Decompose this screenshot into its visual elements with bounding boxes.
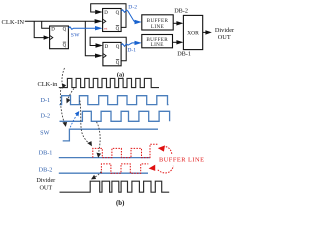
svg-text:CLK-in: CLK-in — [37, 81, 58, 88]
svg-text:SW: SW — [71, 32, 81, 38]
svg-text:rst: rst — [104, 27, 108, 31]
dashed arrow CLK-in to D-1 edge — [67, 89, 74, 102]
svg-text:Q: Q — [116, 27, 120, 32]
gate XOR — [183, 15, 202, 49]
svg-text:D: D — [104, 11, 108, 16]
wire D-2 net (blue) from U2 Q to buffer B1 — [121, 10, 135, 22]
svg-text:Divider: Divider — [215, 27, 235, 34]
arrowhead into U2 D — [95, 10, 102, 14]
arrowhead into U1 clock — [44, 35, 50, 39]
arrowhead into U2 clock — [95, 19, 103, 23]
svg-text:Divider: Divider — [36, 177, 55, 184]
wire SW net (blue) from U1 Q to U2 rst — [68, 27, 95, 30]
flip-flop U1 — [50, 26, 69, 49]
svg-text:DB-2: DB-2 — [39, 166, 53, 173]
waveform DB-1 delayed (red dashed) — [93, 144, 159, 157]
buffer line block B2 — [142, 35, 173, 49]
dashed arrow D-1 to DB-1 edge — [80, 101, 91, 145]
svg-text:OUT: OUT — [39, 184, 52, 191]
wire U2 feedback Qbar to D — [91, 4, 126, 28]
waveform D-1 — [60, 96, 169, 105]
dashed arrow CLK-in down to SW edge — [60, 87, 65, 125]
svg-text:CLK-IN: CLK-IN — [2, 19, 25, 26]
wire CLK-IN main horizontal — [25, 20, 95, 22]
svg-text:DB-2: DB-2 — [174, 7, 188, 14]
svg-text:Q: Q — [63, 27, 67, 32]
wire CLK branch to U1 clock — [34, 21, 44, 37]
waveform DB-2 baseline (blue) — [59, 172, 148, 174]
arrowhead into U3 clock — [95, 54, 103, 58]
wire U3 feedback Qbar to D — [90, 37, 126, 61]
red dashed arrow to DB-2 wave — [158, 166, 174, 173]
wire XOR output — [203, 31, 206, 33]
svg-text:LINE: LINE — [151, 42, 164, 48]
svg-text:D-1: D-1 — [127, 48, 136, 54]
svg-text:D-2: D-2 — [40, 113, 50, 120]
arrowhead DB-1 into XOR — [176, 40, 183, 44]
svg-text:Q: Q — [63, 44, 67, 49]
wire DB-1 from B2 to XOR — [173, 41, 177, 43]
arrowhead D-1 into buffer B2 (blue) — [135, 41, 142, 45]
waveform DB-2 delayed (red dashed) — [101, 164, 148, 173]
arrowhead SW into U2 rst (blue) — [95, 26, 103, 30]
svg-text:OUT: OUT — [218, 34, 231, 41]
svg-text:LINE: LINE — [151, 24, 164, 30]
waveform CLK-in — [59, 78, 159, 87]
wire CLK stub to U1 D input — [42, 21, 50, 28]
svg-text:(a): (a) — [117, 71, 124, 78]
buffer line block B1 — [142, 15, 173, 30]
arrowhead Divider OUT — [205, 30, 211, 34]
svg-text:XOR: XOR — [187, 31, 199, 37]
svg-text:D-1: D-1 — [40, 97, 50, 104]
svg-text:DB-1: DB-1 — [177, 50, 191, 57]
svg-text:SW: SW — [40, 130, 49, 137]
red dashed arrow to DB-1 wave — [166, 147, 172, 155]
wire CLK branch down to U3 clock — [85, 21, 96, 55]
svg-text:Q: Q — [116, 11, 120, 16]
svg-text:Q: Q — [116, 45, 120, 50]
wire DB-2 from B1 to XOR — [173, 22, 177, 24]
svg-text:(b): (b) — [116, 200, 124, 207]
wire D-1 net (blue) from U3 Q to buffer B2 — [121, 43, 135, 46]
svg-text:D: D — [105, 45, 109, 50]
waveform SW — [63, 129, 158, 141]
svg-text:DB-1: DB-1 — [39, 149, 53, 156]
flip-flop U2 — [103, 9, 122, 33]
waveform Divider OUT — [60, 181, 170, 192]
svg-text:D: D — [51, 27, 55, 32]
dashed arrow SW to D-2 edge (blue) — [70, 112, 78, 127]
waveform D-2 — [60, 111, 170, 121]
svg-text:D-2: D-2 — [128, 5, 137, 11]
arrowhead into U3 D — [96, 43, 103, 47]
dashed arrow DB-2 to Divider OUT edge — [93, 172, 102, 179]
flip-flop U3 — [103, 42, 121, 66]
arrowhead DB-2 into XOR — [176, 21, 183, 25]
arrowhead D-2 into buffer B1 (blue) — [135, 20, 142, 24]
svg-text:Q: Q — [116, 61, 120, 66]
svg-text:BUFFER LINE: BUFFER LINE — [159, 157, 204, 164]
dashed arrow D-2 to DB-1 low — [97, 122, 101, 156]
dashed arrow schematic to CLK-in edge — [62, 68, 65, 86]
waveform DB-1 baseline (blue) — [59, 157, 150, 159]
